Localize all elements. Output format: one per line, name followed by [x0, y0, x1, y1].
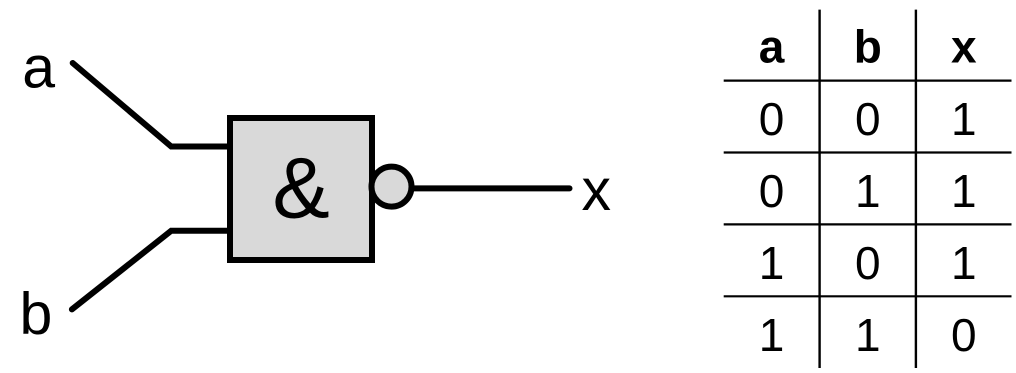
svg-text:&: & — [272, 141, 329, 237]
truth table row 1 1 0 — [759, 309, 977, 361]
svg-text:0: 0 — [855, 93, 881, 145]
svg-text:1: 1 — [855, 309, 881, 361]
svg-text:0: 0 — [951, 309, 977, 361]
svg-text:1: 1 — [951, 93, 977, 145]
truth table row divider under header — [724, 79, 1012, 81]
truth table row divider 2 — [724, 223, 1012, 225]
svg-text:x: x — [582, 157, 612, 223]
inversion bubble — [372, 167, 412, 207]
wire b (input b to gate pin 2) — [72, 231, 230, 310]
truth table column divider b|x — [915, 10, 917, 368]
svg-text:b: b — [854, 20, 882, 72]
wire output (bubble to node x) — [402, 185, 570, 191]
svg-text:1: 1 — [759, 309, 785, 361]
svg-text:a: a — [22, 34, 55, 100]
truth table header a b x — [759, 20, 977, 72]
truth table row divider 3 — [724, 295, 1012, 297]
svg-text:0: 0 — [759, 165, 785, 217]
gate U1 NAND body — [230, 118, 372, 260]
svg-text:1: 1 — [855, 165, 881, 217]
svg-text:x: x — [951, 20, 977, 72]
svg-text:a: a — [759, 20, 785, 72]
truth table row 0 0 1 — [759, 93, 977, 145]
truth table row 0 1 1 — [759, 165, 977, 217]
svg-text:0: 0 — [759, 93, 785, 145]
truth table column divider a|b — [818, 10, 820, 368]
svg-text:b: b — [20, 281, 53, 347]
wire a (input a to gate pin 1) — [73, 63, 230, 147]
truth table row 1 0 1 — [759, 237, 977, 289]
svg-text:1: 1 — [759, 237, 785, 289]
svg-text:1: 1 — [951, 237, 977, 289]
truth table row divider 1 — [724, 151, 1012, 153]
svg-text:0: 0 — [855, 237, 881, 289]
svg-text:1: 1 — [951, 165, 977, 217]
